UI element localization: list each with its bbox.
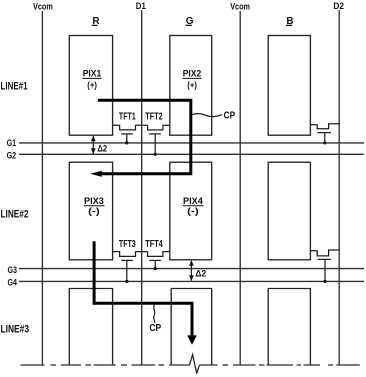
- pixel PIX1 box: [69, 36, 112, 136]
- wavy pointer to CP (row 2): [154, 305, 155, 323]
- transistor B column row 2: [310, 250, 339, 283]
- svg-text:Δ2: Δ2: [195, 269, 206, 280]
- label PIX2: [182, 69, 201, 91]
- svg-text:Vcom: Vcom: [230, 2, 250, 12]
- Vcom bus line (left): [41, 11, 43, 365]
- pixel box B column row 3 (open bottom): [268, 289, 310, 366]
- svg-text:D1: D1: [136, 1, 146, 11]
- svg-text:PIX2: PIX2: [183, 69, 202, 79]
- label PIX4: [183, 196, 204, 216]
- label PIX3: [84, 196, 105, 216]
- svg-text:TFT3: TFT3: [119, 238, 136, 250]
- label G (column header, underlined): [185, 16, 193, 27]
- svg-text:Vcom: Vcom: [33, 2, 53, 12]
- bottom boundary dash-dot line: [21, 364, 360, 366]
- svg-text:(-): (-): [187, 206, 199, 216]
- svg-text:CP: CP: [224, 111, 236, 122]
- data line D1: [141, 10, 143, 365]
- data line D2: [338, 10, 340, 365]
- gate line G3: [19, 268, 364, 270]
- Vcom bus line (right): [239, 11, 241, 365]
- svg-text:CP: CP: [149, 323, 161, 334]
- label R (column header, underlined): [92, 16, 101, 27]
- gate line G2: [19, 153, 364, 155]
- wavy pointer to CP (row 1): [192, 114, 222, 117]
- svg-text:PIX1: PIX1: [83, 69, 102, 79]
- transistor TFT4: [148, 252, 170, 271]
- transistor TFT3: [113, 252, 148, 283]
- pixel PIX4 box: [170, 162, 212, 260]
- break (cut) squiggle symbol: [190, 355, 200, 374]
- pixel box B column row 1: [268, 36, 310, 136]
- svg-text:(+): (+): [187, 80, 197, 90]
- label PIX1: [82, 69, 101, 91]
- svg-text:LINE#2: LINE#2: [1, 209, 29, 221]
- dimension arrow delta-2 (row 2): [189, 260, 194, 281]
- svg-text:LINE#3: LINE#3: [1, 324, 30, 336]
- svg-text:G4: G4: [8, 277, 18, 288]
- svg-text:PIX4: PIX4: [183, 196, 203, 206]
- svg-text:LINE#1: LINE#1: [1, 81, 28, 93]
- pixel PIX2 box: [170, 36, 212, 136]
- svg-text:PIX3: PIX3: [84, 196, 104, 206]
- coupling path segment B (thick): from PIX3 down, right, down to break with arrow: [94, 241, 197, 344]
- transistor TFT2: [148, 125, 170, 156]
- gate line G1: [19, 142, 364, 144]
- gate line G4: [19, 280, 364, 282]
- transistor TFT1: [113, 125, 148, 144]
- svg-text:G3: G3: [8, 265, 18, 276]
- svg-text:TFT1: TFT1: [119, 110, 136, 122]
- svg-text:G2: G2: [7, 150, 17, 161]
- coupling path segment A (thick): from PIX1 right, down through PIX2, left into PIX3: [90, 100, 190, 177]
- svg-text:Δ2: Δ2: [97, 143, 107, 154]
- pixel box G column row 3 (open bottom): [171, 289, 212, 366]
- svg-text:(+): (+): [87, 80, 97, 90]
- label B (column header, underlined): [286, 16, 294, 27]
- transistor B column row 1: [310, 124, 339, 145]
- pixel PIX3 box: [69, 162, 112, 260]
- svg-text:TFT4: TFT4: [145, 238, 163, 250]
- svg-text:D2: D2: [333, 1, 344, 11]
- dimension arrow delta-2 (row 1): [91, 136, 96, 154]
- svg-text:G1: G1: [7, 138, 17, 149]
- svg-text:TFT2: TFT2: [145, 110, 163, 122]
- svg-text:(-): (-): [88, 206, 100, 216]
- pixel box B column row 2: [268, 162, 310, 260]
- pixel box R column row 3 (open bottom): [69, 289, 112, 366]
